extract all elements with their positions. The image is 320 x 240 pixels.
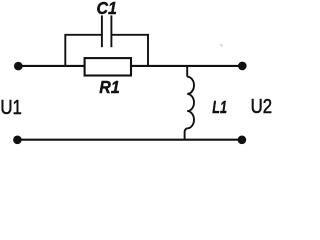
terminal dot: U1 minus (bottom-left) [13, 136, 22, 145]
svg-text:U1: U1 [0, 96, 21, 119]
svg-text:L1: L1 [212, 98, 227, 117]
svg-text:U2: U2 [251, 95, 272, 118]
wire: L1 bottom lead to bottom rail [185, 128, 188, 139]
junction: L1 top tap on top rail [186, 66, 188, 77]
terminal dot: U2 plus (top-right) [238, 62, 247, 71]
capacitor C1 (right plate) [110, 15, 112, 47]
wire: C1 branch, right run from C1 right plate and right riser [111, 35, 148, 66]
capacitor C1 (left plate) [101, 15, 103, 47]
resistor R1 (body rectangle) [85, 58, 131, 75]
inductor L1 (three arc coil) [187, 77, 194, 129]
scan speck (faint) [220, 44, 222, 46]
wire: bottom rail (U1- terminal to U2- terminal) [17, 139, 242, 141]
wire: C1 branch, left riser and top run to C1 left plate [65, 35, 102, 66]
wire: top rail, right segment (R1 right pin to U2+ terminal) [131, 65, 242, 67]
terminal dot: U2 minus (bottom-right) [238, 136, 247, 145]
wire: top rail, left segment (U1+ terminal to R1 left pin) [18, 65, 85, 67]
svg-text:R1: R1 [99, 77, 119, 97]
svg-text:C1: C1 [97, 0, 117, 18]
terminal dot: U1 plus (top-left) [14, 62, 23, 71]
